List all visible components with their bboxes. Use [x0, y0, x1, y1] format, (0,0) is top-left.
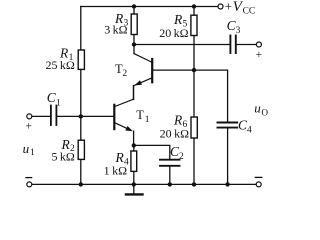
label R3 [104, 11, 128, 36]
node T1 base [79, 114, 83, 118]
label C4 [238, 118, 252, 136]
node R3 top on rail [132, 4, 136, 8]
transistor T1 [114, 86, 133, 146]
svg-text:+: + [225, 0, 232, 14]
label +Vcc [225, 0, 255, 17]
resistor R3 [131, 14, 137, 35]
wire R2 bottom to ground rail [80, 159, 82, 184]
wire R3 top lead [133, 7, 135, 15]
wire C3 to output terminal [237, 44, 256, 46]
wire left branch vertical from rail to R1 [80, 7, 82, 51]
transistor T2 [134, 45, 195, 100]
label T2 [115, 62, 127, 79]
wire base node to C4 top corner [194, 70, 228, 122]
svg-text:O: O [262, 108, 269, 118]
node R6 on rail [192, 182, 196, 186]
resistor R4 [131, 151, 137, 171]
wire R4 bottom lead [133, 171, 135, 184]
svg-text:3 kΩ: 3 kΩ [104, 23, 127, 37]
wire bottom rail [32, 183, 256, 185]
label C3 [227, 18, 241, 36]
capacitor C3 [230, 36, 235, 54]
label R2 [51, 137, 75, 164]
wire output node to C3 [134, 44, 230, 46]
wire C2 bottom to rail [169, 167, 171, 185]
node C2 on rail [168, 182, 172, 186]
wire input terminal to C1 [32, 115, 50, 117]
node R5 top on rail [192, 4, 196, 8]
svg-text:1: 1 [30, 148, 35, 158]
wire base node to R6 top [193, 70, 195, 117]
svg-text:1: 1 [145, 115, 150, 125]
label C1 [47, 90, 61, 109]
node collector of T2 under R3 [132, 42, 136, 46]
capacitor C1 [51, 106, 57, 126]
capacitor C2 [160, 160, 180, 166]
terminal output + [256, 42, 261, 47]
label uO output voltage [254, 101, 268, 118]
wire R3 bottom lead to collector node [133, 35, 135, 45]
svg-text:5 kΩ: 5 kΩ [51, 149, 74, 163]
wire top rail [81, 6, 218, 8]
label R4 [104, 150, 129, 177]
node C4 on rail [225, 182, 229, 186]
label R5 [159, 12, 188, 40]
wire R5 top lead [193, 7, 195, 16]
wire C1 to base node to T1 base [57, 115, 113, 117]
svg-text:2: 2 [122, 69, 127, 79]
svg-text:u: u [254, 101, 261, 116]
wire C4 bottom to rail [227, 128, 229, 184]
svg-text:1: 1 [56, 98, 61, 108]
svg-text:T: T [136, 108, 144, 122]
terminal input + [27, 114, 32, 119]
svg-text:R: R [173, 12, 183, 27]
svg-text:2: 2 [179, 152, 184, 162]
svg-text:3: 3 [236, 26, 241, 36]
wire R5 bottom to T2 base node [193, 36, 195, 71]
resistor R6 [191, 117, 197, 138]
label R1 [45, 46, 74, 72]
label R6 [160, 113, 189, 141]
svg-text:4: 4 [247, 125, 252, 135]
terminal input - [27, 182, 32, 187]
resistor R1 [78, 50, 84, 69]
svg-text:u: u [23, 141, 30, 156]
node T2 base [192, 68, 196, 72]
resistor R5 [191, 15, 197, 35]
label T1 [136, 108, 150, 125]
wire R1 bottom to R2 top through base node [80, 69, 82, 140]
resistor R2 [78, 140, 84, 159]
node R2 on rail [79, 182, 83, 186]
wire emitter node to C2 [134, 145, 170, 158]
svg-text:+: + [256, 49, 263, 61]
svg-text:1 kΩ: 1 kΩ [104, 163, 127, 177]
svg-text:+: + [25, 121, 32, 133]
node T1 emitter [132, 143, 136, 147]
wire R6 bottom to ground rail [193, 138, 195, 184]
svg-text:20 kΩ: 20 kΩ [160, 126, 189, 140]
terminal output - [256, 182, 261, 187]
svg-text:R: R [173, 113, 183, 128]
svg-text:20 kΩ: 20 kΩ [159, 26, 188, 40]
capacitor C4 [218, 123, 238, 128]
minus sign bottom left [26, 177, 32, 179]
minus sign bottom right [255, 176, 261, 178]
svg-text:CC: CC [243, 7, 256, 17]
label u1 input voltage [23, 141, 35, 158]
svg-text:25 kΩ: 25 kΩ [45, 58, 74, 72]
ground [126, 184, 143, 194]
terminal +Vcc [218, 4, 223, 9]
wire emitter node to R4 [133, 145, 135, 151]
label C2 [170, 144, 184, 162]
node R4 ground on rail [132, 182, 136, 186]
